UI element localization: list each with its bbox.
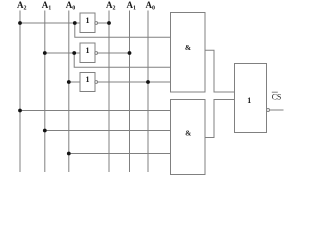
svg-text:1: 1	[86, 46, 90, 55]
node NA1 column (inverted bus line 5)	[129, 11, 131, 173]
wire: AND gate U2 output to OR gate U3 input 2	[205, 100, 235, 138]
svg-text:&: &	[185, 43, 191, 52]
inverter G1 box	[80, 13, 95, 33]
wire: OR gate U3 output lead to CS	[270, 109, 284, 111]
OR gate U3 box	[235, 64, 267, 133]
junction dot: G3 output on NA0 column	[146, 80, 150, 84]
wire: A1 branch down from junction to AND gate U1 input 2	[74, 53, 170, 67]
junction dot: A0 column to U2 input 3	[67, 152, 71, 156]
overline of CS output label	[272, 91, 278, 93]
wire: A2 tap to AND gate U2 input 1	[20, 110, 171, 112]
junction dot: A2 column to G1 input	[18, 21, 22, 25]
inverter G3 box	[80, 73, 95, 92]
node A1 column (bus line 2)	[44, 11, 46, 173]
wire: inverter G3 output across NA0 column to AND gate U1 input 3	[98, 81, 171, 83]
node A2 column (bus line 1)	[19, 11, 21, 173]
junction dot: G1 output on NA2 column	[107, 21, 111, 25]
svg-text:1: 1	[86, 16, 90, 25]
svg-text:1: 1	[86, 75, 90, 84]
junction dot: A2 column to U2 input 1	[18, 109, 22, 113]
junction dot: G2 input branch	[72, 51, 76, 55]
junction dot: A1 column to U2 input 2	[43, 129, 47, 133]
wire: A0 tap to inverter G3 input	[69, 81, 80, 83]
svg-text:1: 1	[247, 96, 251, 105]
AND gate U2 box	[171, 100, 206, 175]
junction dot: G1 input branch	[73, 21, 77, 25]
wire: AND gate U1 output to OR gate U3 input 1	[205, 50, 235, 92]
node NA2 column (inverted bus line 4)	[108, 11, 110, 173]
inverter G2 output bubble	[95, 52, 98, 55]
OR gate U3 output inversion bubble	[267, 109, 270, 112]
svg-text:&: &	[185, 129, 191, 138]
wire: A1 tap to inverter G2 input	[45, 52, 80, 54]
wire: A2 tap to inverter G1 input	[20, 22, 80, 24]
AND gate U1 box	[171, 13, 206, 93]
wire: inverter G2 output to NA1 column	[98, 52, 130, 54]
wire: inverter G1 output to NA2 column	[98, 22, 110, 24]
wire: A2 branch down from junction to AND gate U1 input 1	[75, 23, 171, 37]
inverter G3 output bubble	[95, 81, 98, 84]
junction dot: A1 column to G2 input	[43, 51, 47, 55]
node NA0 column (inverted bus line 6)	[147, 11, 149, 173]
junction dot: G2 output on NA1 column	[128, 51, 132, 55]
wire: A0 tap to AND gate U2 input 3	[69, 153, 171, 155]
inverter G1 output bubble	[95, 22, 98, 25]
wire: A1 tap to AND gate U2 input 2	[45, 130, 171, 132]
junction dot: A0 column to G3 input	[67, 80, 71, 84]
svg-text:CS: CS	[272, 93, 281, 102]
inverter G2 box	[80, 43, 95, 63]
node A0 column (bus line 3)	[68, 11, 70, 173]
